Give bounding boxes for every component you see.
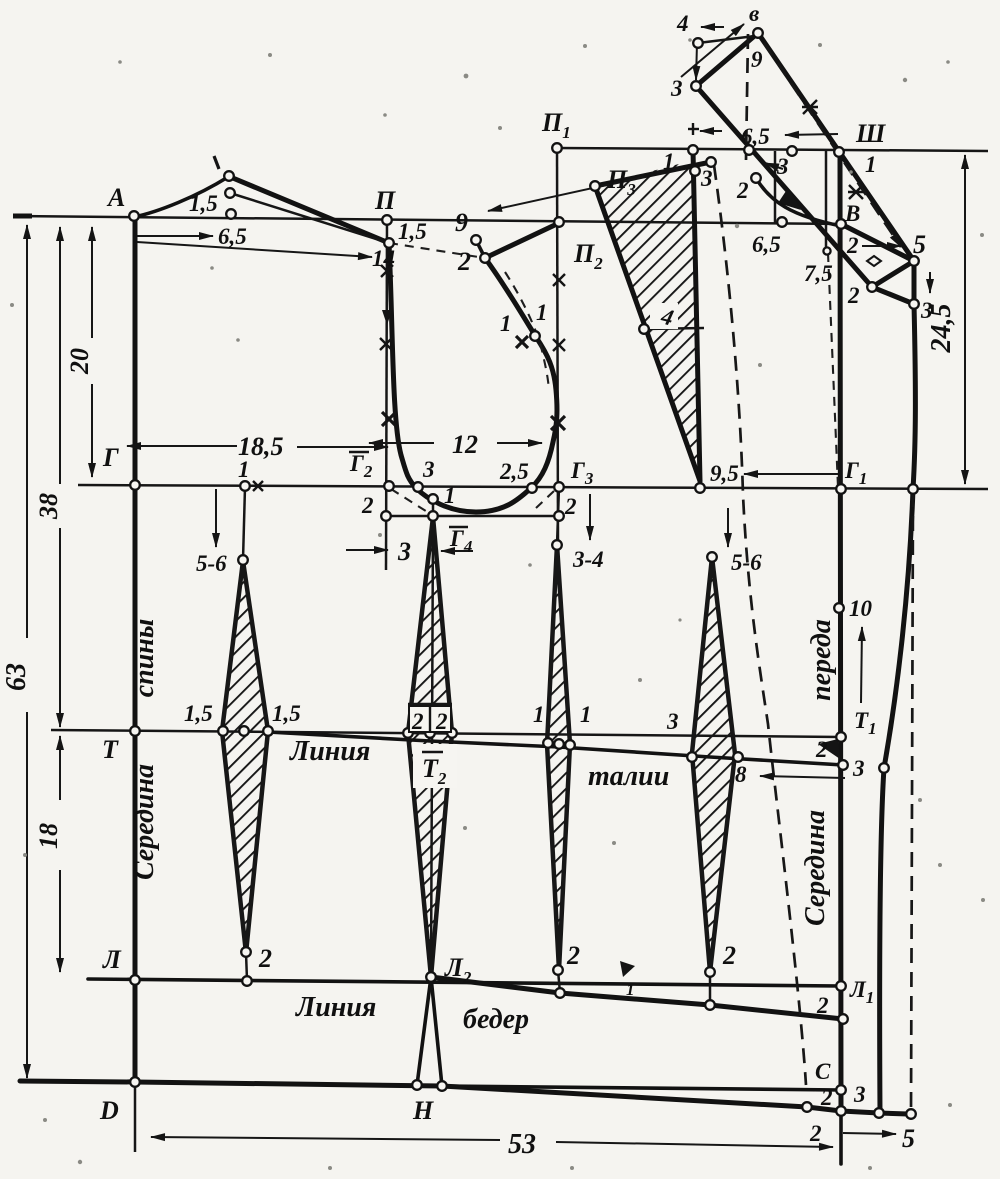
wire: top construction horizontal at v (698, 36, 755, 43)
node 9.5 (695, 483, 705, 493)
node front dart tip (705, 967, 715, 977)
svg-text:6,5: 6,5 (752, 232, 781, 257)
small arrow 3 at neck (765, 163, 783, 169)
node L2 (426, 972, 436, 982)
svg-text:12: 12 (452, 430, 478, 459)
svg-text:2: 2 (361, 493, 374, 518)
wire: neck construction vertical 1 (774, 151, 777, 223)
node 1 on front armhole (530, 331, 540, 341)
node G1 (836, 484, 846, 494)
bold x on back armhole (382, 412, 396, 426)
svg-text:2: 2 (722, 941, 736, 970)
wire: armhole curve (389, 243, 557, 512)
label T2 backing (413, 744, 457, 788)
wire: front neckline curve (756, 178, 841, 226)
svg-text:А: А (106, 183, 125, 212)
arrow 5 bottom right (843, 1133, 896, 1134)
node back dart waist left (218, 726, 228, 736)
wire: back dart tip link to hip (246, 953, 247, 980)
wire: back shoulder seam (228, 176, 389, 243)
wire: back waist dart center vertical (243, 487, 245, 560)
node front dart waist left (687, 752, 697, 762)
node L1 (836, 981, 846, 991)
dimension 18 vertical lower segment (59, 870, 61, 972)
node A (129, 211, 139, 221)
node side seam on G (908, 484, 918, 494)
svg-text:38: 38 (34, 493, 63, 520)
svg-text:переда: переда (806, 619, 837, 701)
node hem center front (836, 1106, 846, 1116)
node T2 dart waist right (447, 728, 457, 738)
node 2 below L1 (838, 1014, 848, 1024)
node 3 below v (691, 81, 701, 91)
dart at G3 hatched (547, 545, 570, 970)
overbar G4 (449, 526, 468, 528)
svg-text:3: 3 (422, 457, 435, 482)
arrow 4 top pointing left (701, 26, 724, 28)
node corner above v (693, 38, 703, 48)
wire: tick above T2 dart labels (408, 703, 452, 706)
black wedge on hip line (620, 961, 635, 977)
node 6.5 neck (787, 146, 797, 156)
node G3 dart waist left (543, 738, 553, 748)
svg-text:1,5: 1,5 (398, 219, 427, 244)
node on neck vertical (823, 247, 830, 254)
svg-text:1: 1 (580, 702, 592, 727)
wire: center front extension below hem (839, 1111, 843, 1164)
svg-text:9: 9 (455, 208, 468, 237)
svg-text:С: С (815, 1059, 831, 1084)
svg-text:1,5: 1,5 (272, 701, 301, 726)
wire: top horizontal line A-B (14, 216, 845, 224)
svg-text:6,5: 6,5 (741, 124, 770, 149)
x mark on P vertical mid (380, 338, 392, 350)
node 3 shoulder (706, 157, 716, 167)
front waist dart hatched (692, 557, 735, 972)
wire: thin shoulder construction line (230, 193, 389, 243)
arrow 2 to 5 (862, 245, 901, 247)
svg-text:3: 3 (670, 76, 683, 101)
svg-text:1,5: 1,5 (189, 191, 218, 216)
dimension 38 vertical upper segment (59, 227, 61, 484)
node P1 (552, 143, 562, 153)
dimension 3 at G4 left arrow (346, 549, 388, 551)
wire: bottom line D-H (20, 1081, 442, 1086)
small down arrow right of 5 (929, 272, 931, 293)
x mark near 1 1 labels (516, 336, 528, 348)
arrow 14 from A (137, 242, 372, 257)
svg-text:2: 2 (411, 709, 424, 734)
bold x on front armhole (551, 416, 565, 430)
svg-text:5: 5 (902, 1124, 915, 1153)
wire: T2 dart lower left extension (417, 977, 431, 1085)
dimension 53 right segment (556, 1142, 833, 1147)
down arrow front dart 5-6 (727, 508, 729, 547)
wire: mark line inside bust dart with 4 (644, 328, 704, 329)
svg-text:8: 8 (735, 762, 747, 787)
node v (753, 28, 763, 38)
dimension 3 at G4 right arrow (441, 550, 473, 552)
svg-text:2: 2 (815, 737, 828, 762)
svg-text:4: 4 (676, 11, 689, 36)
node 3 on G line (413, 482, 423, 492)
dimension 18.5 left segment (127, 445, 237, 447)
wire: waist line thick sloped (268, 732, 843, 765)
node 3 on P1 line (744, 145, 754, 155)
node hip below front dart (705, 1000, 715, 1010)
node G3 dart waist right (565, 740, 575, 750)
arrow 6.5 from A (137, 235, 213, 237)
svg-text:3: 3 (852, 756, 865, 781)
node 10 (834, 603, 844, 613)
wire: front dart tip link to hip (709, 972, 712, 1005)
node 2 below G3 (554, 511, 564, 521)
x mark on P1 vertical mid (553, 339, 565, 351)
node D (130, 1077, 140, 1087)
node hem side seam (874, 1108, 884, 1118)
node 2 below G2 (381, 511, 391, 521)
x tick right of node 1 on G line (253, 481, 263, 491)
svg-text:1: 1 (238, 457, 250, 482)
svg-text:1: 1 (865, 152, 877, 177)
svg-text:спины: спины (129, 619, 160, 698)
node back dart top (238, 555, 248, 565)
x mark on P1 vertical upper (553, 274, 565, 286)
svg-text:9,5: 9,5 (710, 461, 739, 486)
node 5 (909, 256, 919, 266)
star on dashed line to 5 (848, 185, 864, 199)
node back dart waist right (263, 726, 273, 736)
svg-text:Л: Л (102, 945, 122, 974)
black wedge at T1 (818, 739, 840, 759)
wire: back neckline curve A to peak (134, 177, 228, 217)
node 3 zigzag (909, 299, 919, 309)
shoulder dart (bust dart) hatched triangle (595, 160, 700, 481)
wire: hem line sloped (442, 1086, 908, 1114)
svg-text:2,5: 2,5 (499, 459, 529, 484)
svg-text:в: в (749, 1, 759, 26)
svg-text:3: 3 (776, 154, 789, 179)
arrow to 9 label (488, 177, 643, 211)
node back dart waist mid (239, 726, 249, 736)
overbar G2 (349, 451, 369, 453)
svg-text:9: 9 (751, 47, 763, 72)
wire: bust dart right edge (693, 150, 700, 481)
dimension 20 vertical lower segment (91, 384, 93, 477)
node L (130, 975, 140, 985)
wire: P1 vertical line down to dart (557, 148, 558, 545)
node T2 (425, 728, 435, 738)
node G3 dart top (552, 540, 562, 550)
svg-text:2: 2 (736, 178, 749, 203)
svg-text:П: П (374, 186, 396, 215)
svg-text:Н: Н (412, 1096, 434, 1125)
node C (836, 1085, 846, 1095)
svg-text:3-4: 3-4 (572, 547, 604, 572)
node on hem (802, 1102, 812, 1112)
dimension 20 vertical upper segment (91, 227, 93, 338)
wire: center back extension below D (134, 1082, 137, 1152)
node hip below G3 dart (555, 988, 565, 998)
left end cap of top line (13, 214, 32, 219)
small stroke above neck peak (214, 156, 219, 169)
wire: top construction vertical with down arrow (696, 43, 697, 80)
svg-text:24,5: 24,5 (926, 304, 957, 354)
svg-text:2: 2 (435, 709, 448, 734)
node on hip below back dart (242, 976, 252, 986)
svg-text:7,5: 7,5 (804, 261, 833, 286)
wire: chest line G (78, 485, 988, 489)
dashed: near center front above G1 (828, 253, 838, 487)
node neck peak (224, 171, 234, 181)
wire: T2 dart center line (431, 517, 433, 977)
node front dart waist right (733, 752, 743, 762)
svg-text:3: 3 (666, 709, 679, 734)
node G4 (428, 511, 438, 521)
node 1 on G line (240, 481, 250, 491)
node T1 (836, 732, 846, 742)
node H right (437, 1081, 447, 1091)
wire: 5 to 2 zigzag (872, 261, 914, 287)
wire: P1 level horizontal line (557, 148, 988, 151)
node 2 front shoulder (480, 253, 490, 263)
wire: G3 dart top link (557, 487, 559, 545)
node 9 (471, 235, 481, 245)
svg-text:1: 1 (533, 702, 545, 727)
svg-text:6,5: 6,5 (218, 224, 247, 249)
svg-text:2: 2 (258, 944, 272, 973)
wire: T2 dart top link (432, 499, 435, 517)
wire: line below G2-G3 (386, 515, 559, 518)
node hem dashed end (906, 1109, 916, 1119)
node P3 (590, 181, 600, 191)
svg-text:1: 1 (536, 300, 548, 325)
arrow 8 pointing left (760, 776, 845, 778)
node 1 above G4 (428, 494, 438, 504)
small arrow with plus tick (700, 130, 722, 132)
node back dart tip (241, 947, 251, 957)
wire: center front vertical Sh-bottom (840, 153, 841, 1111)
svg-text:5-6: 5-6 (196, 551, 227, 576)
node 1 dart top (690, 166, 700, 176)
wire: P vertical line (386, 220, 387, 570)
box for 2 2 labels (409, 706, 451, 732)
down arrow G3 dart 3-4 (589, 494, 591, 540)
node neckline on B line (777, 217, 787, 227)
svg-text:5-6: 5-6 (731, 550, 762, 575)
dimension 24.5 vertical right (964, 155, 966, 484)
svg-text:Ш: Ш (855, 119, 886, 148)
svg-text:10: 10 (849, 596, 873, 621)
svg-text:D: D (99, 1096, 119, 1125)
back waist dart hatched (222, 561, 268, 953)
wire: center back vertical A-D (133, 216, 138, 1082)
svg-text:Середина: Середина (129, 764, 160, 880)
svg-text:1: 1 (444, 483, 456, 508)
node side seam waist (879, 763, 889, 773)
node G3 (554, 482, 564, 492)
overbar T2 (422, 751, 443, 753)
dashed: old armhole front (505, 272, 549, 390)
x mark on P vertical upper (381, 265, 393, 277)
star on v-Sh line (802, 100, 818, 114)
svg-text:Г: Г (102, 443, 119, 472)
svg-text:14: 14 (372, 246, 395, 271)
svg-text:Т: Т (102, 735, 119, 764)
dashed: long left line shoulder to hem (714, 165, 806, 1085)
svg-text:20: 20 (65, 348, 94, 375)
node 2 zigzag (867, 282, 877, 292)
dashed: short vertical from v down (746, 34, 748, 160)
node 2 neck (751, 173, 761, 183)
node on A line (226, 209, 236, 219)
svg-text:1: 1 (663, 149, 675, 174)
dashed: right vertical from G1 side down (911, 492, 913, 1112)
wire: bottom line H to C level (442, 1086, 841, 1090)
dart T2 hatched (408, 517, 452, 977)
dashed: parallel to v-Sh line with arrow to 5 (764, 43, 901, 247)
node Sh (834, 147, 844, 157)
svg-text:53: 53 (508, 1129, 536, 1160)
wire: B to 5 (841, 224, 914, 261)
svg-text:5: 5 (913, 230, 926, 259)
dimension 12 right segment (497, 442, 542, 444)
node 4 in bust dart (639, 324, 649, 334)
wire: bust dart left edge (595, 186, 700, 481)
wire: G3 dart tip link to hip (558, 970, 560, 993)
svg-text:Линия: Линия (289, 736, 370, 767)
dimension 63 vertical (26, 225, 28, 638)
dimension 18.5 right segment (297, 446, 388, 448)
svg-text:Середина: Середина (800, 810, 831, 926)
svg-text:63: 63 (1, 663, 32, 691)
svg-text:3: 3 (700, 166, 713, 191)
label 4 backing (650, 303, 678, 329)
dashed: bisector at G3 (536, 491, 554, 508)
svg-text:1,5: 1,5 (184, 701, 213, 726)
node G3 dart waist mid (554, 739, 564, 749)
svg-text:В: В (844, 201, 860, 226)
node H left (412, 1080, 422, 1090)
svg-text:18: 18 (34, 823, 63, 849)
node 2.5 on G line (527, 483, 537, 493)
dimension 12 left segment (369, 442, 434, 444)
dimension 38 vertical lower segment (59, 528, 61, 727)
node G3 dart tip (553, 965, 563, 975)
up arrow 10 on center front (861, 627, 862, 703)
wire: rotated shoulder line with arrow (696, 86, 872, 287)
svg-text:1: 1 (500, 311, 512, 336)
svg-text:2: 2 (457, 247, 471, 276)
svg-text:2: 2 (847, 283, 860, 308)
node P (382, 215, 392, 225)
dashed: bisector at G2 (391, 489, 429, 513)
node 1.5 below P (384, 238, 394, 248)
wire: v to Sh to 5 line (758, 33, 914, 261)
wire: T2 dart lower right extension (431, 977, 442, 1086)
diamond mark between B and 5 (867, 256, 881, 266)
svg-text:2: 2 (566, 941, 580, 970)
wire: hip line thin L-L1 (88, 979, 841, 986)
wire: front shoulder piece line 9-2 to P2 (485, 223, 559, 258)
wire: thin arrow to v (681, 24, 744, 77)
node T (130, 726, 140, 736)
node P2 (554, 217, 564, 227)
arrow 6.5 top pointing left (785, 134, 838, 135)
wire: waist line thin T-T1 (51, 730, 841, 737)
wire: neck construction vertical 2 (825, 151, 828, 253)
dashed: shoulder gap line (389, 243, 485, 258)
wire: segment 9 point to 2 point (476, 240, 485, 258)
node T2 dart waist left (403, 728, 413, 738)
node B (836, 219, 846, 229)
wire: 2 to 3 zigzag (872, 287, 914, 304)
down arrow back dart 5-6 (215, 489, 217, 547)
node front dart top (707, 552, 717, 562)
svg-text:1: 1 (626, 980, 635, 999)
dimension 18 vertical upper segment (59, 736, 61, 800)
plus tick (688, 128, 699, 130)
svg-text:Линия: Линия (295, 992, 376, 1023)
node G (130, 480, 140, 490)
svg-text:2: 2 (820, 1085, 833, 1110)
svg-text:2: 2 (816, 993, 829, 1018)
svg-text:2: 2 (846, 233, 859, 258)
svg-text:3: 3 (397, 537, 411, 566)
down arrowhead on P vertical (382, 310, 392, 325)
arrowhead on rotated shoulder line (778, 188, 801, 210)
node G2 (384, 481, 394, 491)
svg-text:2: 2 (809, 1121, 822, 1146)
wire: upper shoulder line 3 to v (696, 33, 758, 86)
node 3 below T1 (838, 760, 848, 770)
arrow 9.5 pointing left (744, 473, 838, 475)
wire: side seam right (880, 261, 916, 1113)
svg-text:2: 2 (564, 494, 577, 519)
node 1.5 mid (225, 188, 235, 198)
dimension 53 left segment (151, 1137, 500, 1140)
wire: hip line thick sloped L2-2 (431, 977, 843, 1019)
svg-text:талии: талии (588, 761, 669, 792)
svg-text:3: 3 (853, 1082, 866, 1107)
wire: shoulder line P3 (595, 162, 711, 186)
svg-text:бедер: бедер (463, 1004, 529, 1035)
node dart edge on P1 line (688, 145, 698, 155)
